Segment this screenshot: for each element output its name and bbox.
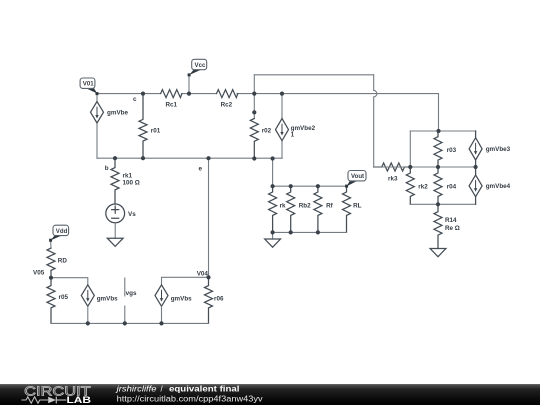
node dot R14 top <box>436 202 440 206</box>
svg-text:gmVbe: gmVbe <box>107 110 128 117</box>
svg-text:r04: r04 <box>447 184 457 191</box>
footer logo diode <box>48 397 56 404</box>
arrow gmVbe2 <box>281 124 283 133</box>
node dot r01 bottom <box>141 156 145 160</box>
svg-text:gmVbe4: gmVbe4 <box>486 183 511 190</box>
resistor RD <box>47 248 55 278</box>
footer logo glyph <box>22 397 67 404</box>
voltage source Vs <box>106 204 125 223</box>
node dot rk2 top <box>408 165 412 169</box>
wire top rail c node y=93.6 <box>97 93 439 95</box>
resistor rk3 <box>374 163 411 171</box>
svg-text:r05: r05 <box>59 294 69 301</box>
arrow gmVbe <box>96 107 98 116</box>
ground under rk <box>265 239 281 247</box>
wire Vdd drop + RD <box>50 240 52 248</box>
resistor Rc1 <box>161 90 182 98</box>
flags <box>49 59 366 241</box>
node dot r04 top <box>436 165 440 169</box>
wire r02 branch with corner <box>253 75 255 119</box>
wire V04 to gmVbs2 <box>162 277 209 285</box>
node dot vgs bottom <box>123 321 127 325</box>
svg-text:V04: V04 <box>197 271 209 278</box>
node dot Rf top <box>316 184 320 188</box>
wire V05 to gmVbs1 <box>51 278 88 285</box>
svg-text:vgs: vgs <box>126 290 137 297</box>
svg-text:r06: r06 <box>214 295 224 302</box>
current source gmVbe4 stem <box>475 167 477 204</box>
arrow gmVbs1 <box>87 290 89 299</box>
svg-text:Rc2: Rc2 <box>221 102 233 109</box>
current source arrows <box>86 107 477 302</box>
arrow gmVbs2 <box>161 290 163 299</box>
svg-text:Vcc: Vcc <box>195 62 206 69</box>
arrow gmVbe4 <box>475 180 477 189</box>
svg-text:jrshircliffe/equivalent final: jrshircliffe/equivalent final <box>115 384 239 393</box>
svg-text:100 Ω: 100 Ω <box>123 179 140 186</box>
svg-text:rk2: rk2 <box>418 184 428 191</box>
node dot gmVbs2 bottom <box>159 321 163 325</box>
svg-text:1: 1 <box>291 132 295 139</box>
node dot e top <box>206 156 210 160</box>
node dot gmVbe2 top <box>280 92 284 96</box>
svg-text:gmVbs: gmVbs <box>171 295 192 302</box>
svg-text:Vs: Vs <box>128 211 136 218</box>
node dot rk top <box>271 184 275 188</box>
wire ground stub rk <box>272 232 274 239</box>
node dot V05 <box>49 276 53 280</box>
wire mid rail right box <box>374 166 476 168</box>
node dot r02 top rail <box>252 92 256 96</box>
svg-text:rk: rk <box>280 202 286 209</box>
node dot c <box>141 92 145 96</box>
svg-text:rk3: rk3 <box>388 175 398 182</box>
wire box top rail <box>410 130 475 132</box>
resistor rk2 <box>406 167 414 204</box>
svg-text:Vdd: Vdd <box>56 228 68 235</box>
wire bottom-left rail <box>51 322 209 324</box>
wire box bottom rail <box>410 203 475 205</box>
wire gmVbs2 bottom <box>161 306 163 323</box>
wire bottom rail b-e y=158.2 <box>97 157 282 159</box>
node dot rk bottom <box>271 230 275 234</box>
wire vgs stubs <box>124 278 126 323</box>
ground under Vs <box>107 238 123 246</box>
svg-text:RL: RL <box>353 202 362 209</box>
resistor rk1 <box>111 158 119 204</box>
resistor r01 <box>139 94 147 159</box>
svg-text:r03: r03 <box>447 147 457 154</box>
current source gmVbe2 diamond <box>276 119 289 141</box>
svg-text:rk1: rk1 <box>123 172 133 179</box>
ground under R14 <box>430 249 446 257</box>
resistor Rf <box>314 186 322 232</box>
resistor RL <box>343 186 351 232</box>
svg-text:V01: V01 <box>83 81 94 88</box>
node dot Rf bottom <box>316 230 320 234</box>
svg-text:RD: RD <box>58 257 68 264</box>
wire drop to lower rail <box>272 159 274 187</box>
node dot Rb2 top <box>289 184 293 188</box>
flag V01 <box>85 88 97 94</box>
svg-text:Re Ω: Re Ω <box>445 225 460 232</box>
node dot rk1 top <box>113 156 117 160</box>
current source gmVbe3 stem <box>475 131 477 167</box>
current source gmVbs1 diamond <box>81 285 94 307</box>
node dot gmVbe34 <box>474 165 478 169</box>
svg-text:http://circuitlab.com/cpp4f3an: http://circuitlab.com/cpp4f3anw43yv <box>117 394 263 403</box>
wire gmVbe left branch <box>96 94 98 159</box>
node dot Rb2 bottom <box>289 230 293 234</box>
wire Vcc drop <box>188 75 190 94</box>
wire lower network bottom rail <box>273 231 347 233</box>
svg-text:Rb2: Rb2 <box>299 202 311 209</box>
flag Vdd <box>51 235 64 240</box>
wire box left vertical <box>409 131 411 167</box>
node dot r02 bottom <box>252 156 256 160</box>
svg-text:Vout: Vout <box>351 173 364 180</box>
resistor r02 <box>250 119 258 159</box>
resistor Rb2 <box>287 186 295 232</box>
current source gmVbe diamond <box>91 102 104 124</box>
resistor r04 <box>434 167 442 204</box>
node dot drop <box>271 156 275 160</box>
wire vertical with hop x=373.7 <box>374 75 377 167</box>
current source gmVbs2 diamond <box>155 285 168 307</box>
node dot Vcc <box>187 92 191 96</box>
resistor r06 <box>205 277 213 323</box>
svg-text:gmVbs: gmVbs <box>97 295 118 302</box>
wire upper rail y=74.8 <box>254 74 373 76</box>
svg-text:b: b <box>105 165 109 172</box>
footer bar <box>0 384 540 405</box>
node dot r02 stub <box>252 110 256 114</box>
flag Vout <box>347 181 358 187</box>
current source gmVbe4 diamond <box>469 175 482 197</box>
wire lower network top rail <box>273 185 347 187</box>
resistor rk <box>269 186 277 232</box>
svg-text:r02: r02 <box>262 128 272 135</box>
wire r03 drop from main rail <box>438 94 440 131</box>
wire e vertical <box>208 158 210 277</box>
svg-text:gmVbe3: gmVbe3 <box>486 146 511 153</box>
resistor Rc2 <box>217 90 238 98</box>
resistor R14 <box>434 204 442 248</box>
svg-text:V05: V05 <box>33 269 45 276</box>
svg-text:Rc1: Rc1 <box>166 102 178 109</box>
wire gmVbe2 stem <box>281 94 283 159</box>
svg-text:R14: R14 <box>445 217 457 224</box>
node dot r03 top <box>436 129 440 133</box>
svg-text:LAB: LAB <box>67 395 92 405</box>
svg-text:gmVbe2: gmVbe2 <box>291 125 316 132</box>
node dot gmVbs1 bottom <box>86 321 90 325</box>
svg-text:c: c <box>133 96 137 103</box>
wire gmVbs1 bottom <box>87 306 89 323</box>
resistor r05 <box>47 278 55 324</box>
wire Vs to ground <box>114 223 116 238</box>
resistor r03 <box>434 131 442 167</box>
svg-text:Rf: Rf <box>326 202 334 209</box>
svg-text:r01: r01 <box>151 127 161 134</box>
flag Vcc <box>189 69 202 75</box>
arrow gmVbe3 <box>475 143 477 152</box>
svg-text:e: e <box>199 166 203 173</box>
node dot V04 <box>206 275 210 279</box>
current source gmVbe3 diamond <box>469 138 482 160</box>
